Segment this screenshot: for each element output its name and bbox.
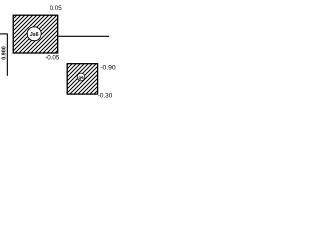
svg-text:Js6: Js6: [30, 32, 39, 38]
wire dimension tick at nominal size: [0, 33, 8, 35]
node fit designation circle Js6: [27, 27, 41, 41]
svg-text:-0.30: -0.30: [98, 93, 113, 100]
hatched tolerance zone 2 (lower): [67, 64, 97, 94]
svg-text:0.900: 0.900: [2, 46, 8, 60]
hatched tolerance zone 1 (upper, straddles zero line): [13, 15, 58, 53]
svg-text:-0.05: -0.05: [45, 55, 60, 62]
svg-text:g6: g6: [78, 75, 84, 80]
wire vertical dimension axis: [6, 34, 8, 76]
svg-text:0.05: 0.05: [50, 5, 63, 12]
node fit designation circle g6: [77, 73, 85, 81]
wire zero deviation line: [58, 35, 109, 37]
svg-text:-0.90: -0.90: [100, 65, 116, 72]
